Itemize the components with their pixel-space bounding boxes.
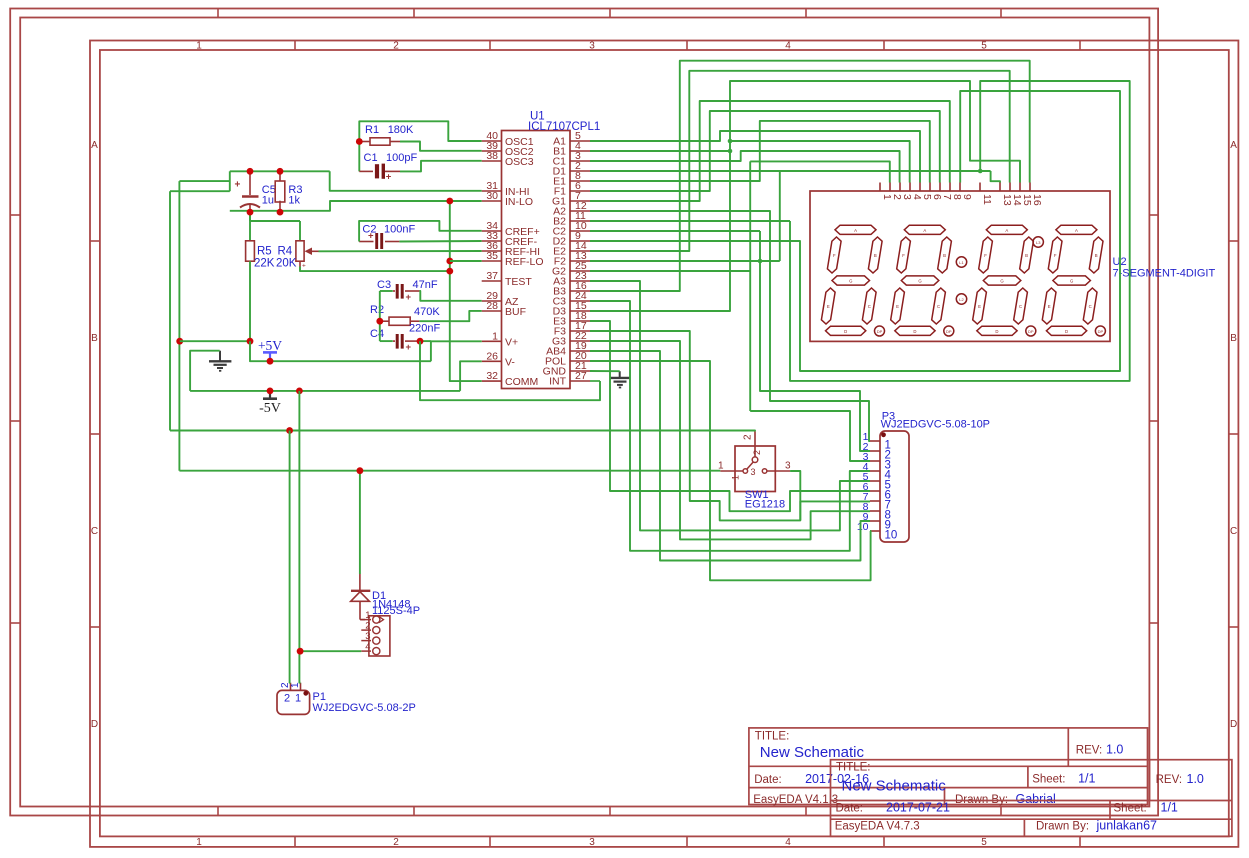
U1 pin 2 D1 bbox=[570, 170, 590, 172]
P2 pin 2 bbox=[361, 629, 371, 631]
svg-text:+: + bbox=[406, 292, 412, 303]
U1 pin 1 V+ bbox=[482, 340, 502, 342]
U1 pin 25 G2 bbox=[570, 270, 590, 272]
wire -5V drop to P2 pin4 and P1 pin1 bbox=[298, 391, 301, 651]
P2 pin 4 bbox=[361, 650, 371, 652]
junction D1-net x980 bbox=[978, 169, 983, 174]
U1 pin 18 E3 bbox=[570, 320, 590, 322]
P3 pin 9 bbox=[870, 520, 880, 522]
U1 pin 5 A1 bbox=[570, 140, 590, 142]
U2 digit 3 seven-segment bbox=[986, 225, 1027, 234]
svg-text:2: 2 bbox=[743, 434, 754, 440]
svg-text:1/1: 1/1 bbox=[1078, 772, 1095, 786]
wire G2 riser to U2 pin2 and P3 pin3 bbox=[590, 270, 750, 272]
svg-text:REV:: REV: bbox=[1156, 774, 1182, 786]
wire D1-net riser x780 to F2 row bbox=[779, 171, 781, 261]
SW1 pin 3 stub bbox=[762, 469, 767, 474]
wire D1-net jog into U2 pin13 bbox=[991, 171, 1000, 183]
U2 digit 1 seven-segment bbox=[835, 225, 876, 234]
svg-text:30: 30 bbox=[486, 190, 498, 202]
junction D3 riser pin4 branch bbox=[728, 139, 733, 144]
P3 pin 2 bbox=[870, 450, 880, 452]
svg-text:Gabrial: Gabrial bbox=[1016, 792, 1056, 806]
U1 pin 34 CREF+ bbox=[482, 230, 502, 232]
svg-text:A: A bbox=[1075, 228, 1078, 233]
wire OSC1 net bbox=[359, 121, 481, 141]
U1 pin 4 B1 bbox=[570, 150, 590, 152]
svg-text:470K: 470K bbox=[414, 306, 440, 318]
U1 pin 9 D2 bbox=[570, 240, 590, 242]
wire R1 right to OSC2 bbox=[400, 142, 482, 151]
U1 pin 7 G1 bbox=[570, 200, 590, 202]
svg-text:+: + bbox=[302, 263, 306, 270]
junction -5V tap bbox=[267, 388, 274, 395]
svg-text:TITLE:: TITLE: bbox=[755, 731, 790, 743]
diode D1 1N4148 bbox=[359, 471, 361, 574]
U2 digit 4 seven-segment bbox=[1056, 225, 1097, 234]
wire C5/R3 left leg to x180 drop bbox=[229, 171, 231, 191]
svg-text:27: 27 bbox=[575, 370, 587, 382]
svg-text:E: E bbox=[896, 304, 899, 309]
wire F1 to U2 pin7 bbox=[590, 111, 940, 191]
junction R3 bottom bbox=[277, 209, 284, 216]
potentiometer R4 20K bbox=[299, 221, 301, 241]
title block A bbox=[749, 728, 1148, 805]
U2 pin 14 bbox=[1009, 183, 1011, 192]
svg-text:DP: DP bbox=[1028, 329, 1034, 334]
svg-text:1/1: 1/1 bbox=[1161, 801, 1178, 815]
svg-text:37: 37 bbox=[486, 270, 498, 282]
P3 pin 7 bbox=[870, 500, 880, 502]
P3 pin 3 bbox=[870, 460, 880, 462]
svg-text:R1: R1 bbox=[365, 124, 379, 136]
wire E1 to U2 pin6 bbox=[590, 121, 930, 183]
svg-text:Sheet:: Sheet: bbox=[1114, 803, 1147, 815]
svg-text:26: 26 bbox=[486, 350, 498, 362]
svg-text:180K: 180K bbox=[388, 124, 414, 136]
svg-text:1: 1 bbox=[196, 41, 202, 52]
svg-text:V+: V+ bbox=[505, 336, 518, 348]
svg-text:1: 1 bbox=[731, 475, 741, 480]
wire A3 to P3 pin5 bbox=[590, 281, 870, 530]
P3 pin 1 bbox=[870, 440, 880, 442]
svg-text:REV:: REV: bbox=[1076, 745, 1102, 757]
switch SW1 EG1218 body bbox=[735, 446, 775, 492]
junction P1 pin2 drop bbox=[286, 427, 293, 434]
P2 pin 3 bbox=[361, 640, 371, 642]
svg-text:D: D bbox=[1230, 719, 1237, 730]
svg-text:2: 2 bbox=[284, 693, 290, 705]
svg-text:Drawn By:: Drawn By: bbox=[1036, 821, 1089, 833]
U1 pin 33 CREF- bbox=[482, 240, 502, 242]
wire IN-HI from C5/R3 right leg bbox=[330, 171, 482, 191]
U1 pin 10 C2 bbox=[570, 230, 590, 232]
U1 pin 35 REF-LO bbox=[482, 260, 502, 262]
svg-text:3: 3 bbox=[589, 837, 595, 848]
svg-text:1: 1 bbox=[196, 837, 202, 848]
svg-text:BUF: BUF bbox=[505, 306, 526, 318]
svg-text:2: 2 bbox=[393, 41, 399, 52]
junction x180/341 bbox=[176, 338, 183, 345]
svg-text:+: + bbox=[235, 180, 241, 191]
U2 pin 15 bbox=[1019, 183, 1021, 192]
svg-text:-5V: -5V bbox=[259, 401, 281, 416]
U2 colon upper LED bbox=[956, 257, 966, 267]
wire D1-net long horizontal bbox=[590, 170, 991, 172]
svg-text:4: 4 bbox=[365, 641, 370, 652]
ground symbol at U1 GND pin bbox=[619, 371, 621, 378]
svg-text:F: F bbox=[1054, 253, 1057, 258]
svg-text:F: F bbox=[902, 253, 905, 258]
svg-text:32: 32 bbox=[486, 370, 498, 382]
svg-text:1.0: 1.0 bbox=[1187, 772, 1204, 786]
R4 wiper arrow bbox=[305, 248, 313, 256]
wire INT pin stub link bbox=[590, 380, 600, 382]
U1 pin 38 OSC3 bbox=[482, 160, 502, 162]
svg-text:1u: 1u bbox=[262, 195, 274, 207]
svg-text:DP: DP bbox=[946, 329, 952, 334]
U2 colon lower LED bbox=[956, 294, 966, 304]
SW1 pivot and lever bbox=[752, 457, 758, 463]
P3 pin 5 bbox=[870, 480, 880, 482]
P3 pin 10 bbox=[870, 530, 880, 532]
junction F2/C2riser bbox=[758, 259, 763, 264]
U2 pin 8 bbox=[949, 183, 951, 192]
svg-text:E: E bbox=[827, 304, 830, 309]
wire F2 row bbox=[590, 260, 780, 262]
svg-text:D: D bbox=[91, 719, 98, 730]
junction D3 riser B1 join bbox=[728, 149, 733, 154]
U1 pin 31 IN-HI bbox=[482, 190, 502, 192]
svg-text:+5V: +5V bbox=[258, 338, 282, 353]
wire C5/R3 top rail bbox=[230, 170, 330, 172]
svg-text:E: E bbox=[978, 304, 981, 309]
wire F3 to P3 pin7 bbox=[590, 331, 870, 520]
U1 pin 30 IN-LO bbox=[482, 200, 502, 202]
svg-text:1.0: 1.0 bbox=[1106, 743, 1123, 757]
svg-text:+: + bbox=[406, 342, 412, 353]
SW1 pin 2 stub bbox=[754, 431, 756, 457]
U1 pin 27 INT bbox=[570, 380, 590, 382]
wire C3 right to AZ bbox=[419, 291, 481, 301]
svg-text:3: 3 bbox=[589, 41, 595, 52]
junction +5V tap bbox=[267, 358, 274, 365]
svg-text:L2: L2 bbox=[959, 297, 964, 302]
junction D1 drop bbox=[357, 467, 364, 474]
capacitor C1 100pF bbox=[358, 142, 360, 172]
wire SW1-pin2 long rail y431 bbox=[170, 430, 755, 433]
svg-text:10: 10 bbox=[885, 530, 898, 542]
op-amp U1 ICL7107CPL1 body bbox=[502, 131, 571, 389]
wire R4 bottom to COMM-net dot bbox=[300, 267, 450, 272]
wire INT net drop and hook bbox=[420, 341, 600, 400]
U2 pin 16 bbox=[1029, 183, 1031, 192]
junction IN-LO node bbox=[446, 198, 453, 205]
junction R1 left bbox=[356, 138, 363, 145]
wire C4 right net to V+ node bbox=[419, 340, 431, 342]
wire R4 wiper to REF-HI bbox=[319, 250, 482, 252]
wire POL to P3 pin10 bbox=[590, 361, 871, 580]
svg-text:3: 3 bbox=[751, 467, 756, 477]
wire R4 top to R5 top rail bbox=[250, 220, 300, 222]
wire D2 to U2 pin9 big loop bbox=[590, 91, 1120, 371]
svg-text:100pF: 100pF bbox=[386, 152, 417, 164]
svg-text:WJ2EDGVC-5.08-2P: WJ2EDGVC-5.08-2P bbox=[313, 702, 416, 714]
wire E2 to U2 pin14 bbox=[590, 71, 1010, 251]
resistor R5 22K bbox=[249, 212, 251, 241]
U1 pin 39 OSC2 bbox=[482, 150, 502, 152]
svg-text:B: B bbox=[1230, 333, 1237, 344]
U1 pin 12 A2 bbox=[570, 210, 590, 212]
svg-text:1: 1 bbox=[492, 330, 498, 342]
svg-text:L1: L1 bbox=[959, 260, 964, 265]
svg-text:D: D bbox=[844, 329, 847, 334]
junction P2 pin4 bbox=[297, 648, 304, 655]
wire D1-net riser x980 up bbox=[790, 81, 1130, 381]
wire A2 to P3 pin1 bbox=[590, 211, 870, 441]
U1 pin 14 E2 bbox=[570, 250, 590, 252]
wire drop to P1 pin 2 bbox=[289, 431, 292, 683]
svg-text:D: D bbox=[995, 329, 998, 334]
wire SW1-pin1 long rail y471 bbox=[179, 470, 720, 472]
svg-text:IN-LO: IN-LO bbox=[505, 196, 533, 208]
svg-text:4: 4 bbox=[785, 41, 791, 52]
wire C3 row to P3 pin4 bbox=[590, 301, 870, 551]
U1 pin 22 G3 bbox=[570, 340, 590, 342]
svg-text:C: C bbox=[1019, 304, 1022, 309]
svg-text:+: + bbox=[386, 172, 392, 183]
svg-text:16: 16 bbox=[1031, 194, 1043, 206]
capacitor C2 100nF bbox=[359, 241, 373, 243]
svg-text:22K: 22K bbox=[254, 258, 275, 270]
resistor R1 180K bbox=[359, 141, 370, 143]
junction C5 bottom bbox=[247, 209, 254, 216]
U1 pin 13 F2 bbox=[570, 260, 590, 262]
svg-text:Date:: Date: bbox=[754, 774, 782, 786]
wire P2 pin4 link bbox=[300, 650, 361, 652]
U1 pin 3 C1 bbox=[570, 160, 590, 162]
svg-text:C: C bbox=[1230, 526, 1237, 537]
junction R4 bottom node bbox=[446, 268, 453, 275]
svg-text:7-SEGMENT-4DIGIT: 7-SEGMENT-4DIGIT bbox=[1113, 268, 1216, 280]
P1 pin 2 stub bbox=[290, 683, 292, 691]
U1 pin 36 REF-HI bbox=[482, 250, 502, 252]
svg-text:TEST: TEST bbox=[505, 276, 532, 288]
U2 pin 2 bbox=[889, 183, 891, 192]
junction C5 top bbox=[247, 168, 254, 175]
U1 pin 20 POL bbox=[570, 360, 590, 362]
svg-text:D: D bbox=[913, 329, 916, 334]
svg-text:EG1218: EG1218 bbox=[745, 499, 785, 511]
wire V- jog bbox=[460, 361, 482, 391]
svg-text:Sheet:: Sheet: bbox=[1032, 774, 1065, 786]
svg-text:B: B bbox=[943, 253, 946, 258]
wire B1 join bbox=[590, 150, 730, 152]
junction INT branch bbox=[417, 338, 424, 345]
svg-text:A: A bbox=[1005, 228, 1008, 233]
U1 pin 32 COMM bbox=[482, 380, 502, 382]
resistor R3 1k bbox=[279, 171, 281, 181]
U2 pin 11 bbox=[979, 183, 981, 192]
U1 pin 21 GND bbox=[570, 370, 590, 372]
U1 pin 26 V- bbox=[482, 360, 502, 362]
U1 pin 17 F3 bbox=[570, 330, 590, 332]
U1 pin 8 E1 bbox=[570, 180, 590, 182]
title block B bbox=[831, 760, 1232, 837]
wire GND pin to ground bbox=[590, 370, 620, 372]
U2 degree LED bbox=[1033, 237, 1043, 247]
svg-text:C: C bbox=[868, 304, 871, 309]
svg-text:V-: V- bbox=[505, 356, 515, 368]
svg-text:1k: 1k bbox=[288, 195, 300, 207]
P2 pin 1 bbox=[361, 619, 371, 621]
svg-text:B: B bbox=[874, 253, 877, 258]
svg-text:DP: DP bbox=[877, 329, 883, 334]
U1 pin 15 D3 bbox=[570, 310, 590, 312]
svg-text:R5: R5 bbox=[257, 246, 272, 258]
svg-text:A: A bbox=[923, 228, 926, 233]
U2 pin 13 bbox=[999, 183, 1001, 192]
svg-text:REF-LO: REF-LO bbox=[505, 256, 544, 268]
svg-text:E: E bbox=[1048, 304, 1051, 309]
svg-text:38: 38 bbox=[486, 150, 498, 162]
U2 pin 9 bbox=[959, 183, 961, 192]
U1 pin 16 B3 bbox=[570, 290, 590, 292]
wire R5 bottom to +5V rail to V+ bbox=[250, 341, 431, 361]
U2 digit 2 seven-segment bbox=[904, 225, 945, 234]
svg-text:2: 2 bbox=[365, 620, 370, 631]
U1 pin 19 AB4 bbox=[570, 350, 590, 352]
svg-text:1: 1 bbox=[365, 610, 370, 621]
svg-text:3: 3 bbox=[785, 461, 791, 472]
P3 pin 6 bbox=[870, 490, 880, 492]
wire x170 long left rail from IN-LO row bbox=[170, 190, 230, 192]
U2 pin 5 bbox=[919, 183, 921, 192]
svg-text:4: 4 bbox=[785, 837, 791, 848]
svg-text:EasyEDA V4.1.3: EasyEDA V4.1.3 bbox=[753, 794, 838, 806]
svg-text:3: 3 bbox=[365, 631, 370, 642]
svg-text:100nF: 100nF bbox=[384, 224, 415, 236]
svg-text:F: F bbox=[984, 253, 987, 258]
svg-text:A: A bbox=[854, 228, 857, 233]
svg-text:9: 9 bbox=[961, 194, 973, 200]
U1 pin 40 OSC1 bbox=[482, 140, 502, 142]
wire B3 to U2 pin16 bbox=[590, 61, 1030, 291]
P1 pin 1 stub bbox=[300, 683, 302, 691]
U1 pin 24 C3 bbox=[570, 300, 590, 302]
P3 pin 4 bbox=[870, 470, 880, 472]
P3 pin 8 bbox=[870, 510, 880, 512]
wire C1 right to OSC3 bbox=[400, 161, 482, 172]
svg-text:A: A bbox=[1230, 140, 1237, 151]
junction R3 top bbox=[277, 168, 284, 175]
junction R5 bottom bbox=[247, 338, 254, 345]
svg-text:WJ2EDGVC-5.08-10P: WJ2EDGVC-5.08-10P bbox=[881, 419, 990, 431]
U2 pin 4 bbox=[909, 183, 911, 192]
svg-text:28: 28 bbox=[486, 300, 498, 312]
junction R2 left bbox=[376, 318, 383, 325]
svg-text:35: 35 bbox=[486, 250, 498, 262]
display U2 7-SEGMENT-4DIGIT body bbox=[810, 191, 1110, 341]
+5V power symbol bbox=[263, 351, 277, 354]
wire E3 to P3 pin6 bbox=[590, 321, 870, 511]
svg-text:COMM: COMM bbox=[505, 376, 538, 388]
svg-text:C: C bbox=[1089, 304, 1092, 309]
-5V power symbol bbox=[269, 391, 271, 399]
svg-text:2: 2 bbox=[752, 450, 762, 455]
svg-text:B: B bbox=[1095, 253, 1098, 258]
U1 pin 29 AZ bbox=[482, 300, 502, 302]
svg-text:11: 11 bbox=[981, 194, 993, 205]
svg-text:2: 2 bbox=[393, 837, 399, 848]
svg-text:C4: C4 bbox=[370, 328, 384, 340]
U2 pin 1 bbox=[879, 183, 881, 192]
wire C2 row bbox=[590, 230, 760, 232]
wire -5V rail to V- bbox=[190, 390, 460, 392]
svg-text:C: C bbox=[91, 526, 98, 537]
capacitor C3 47nF bbox=[380, 290, 393, 292]
svg-text:D: D bbox=[1065, 329, 1068, 334]
svg-text:47nF: 47nF bbox=[413, 279, 438, 291]
svg-text:New Schematic: New Schematic bbox=[842, 778, 947, 795]
wire G1 to U2 pin8 bbox=[590, 101, 950, 201]
wire SW1 pin3 drop to F3 net bbox=[790, 471, 800, 520]
U1 pin 23 A3 bbox=[570, 280, 590, 282]
svg-text:C3: C3 bbox=[377, 279, 391, 291]
wire C2 riser to P3 pin2 bbox=[760, 231, 870, 451]
svg-text:5: 5 bbox=[981, 837, 987, 848]
svg-text:5: 5 bbox=[981, 41, 987, 52]
U1 pin 37 TEST bbox=[482, 280, 502, 282]
wire A1 to U2 pin5 bbox=[590, 131, 920, 183]
wire D3 to U2 pin15 bbox=[590, 81, 1020, 311]
svg-text:B: B bbox=[91, 333, 98, 344]
U2 pin 3 bbox=[899, 183, 901, 192]
capacitor C4 220nF bbox=[380, 340, 393, 342]
U2 pin 6 bbox=[929, 183, 931, 192]
svg-text:A: A bbox=[91, 140, 98, 151]
svg-text:2017-07-21: 2017-07-21 bbox=[886, 801, 950, 815]
U1 pin 6 F1 bbox=[570, 190, 590, 192]
wire COMM riser from IN-LO dot bbox=[450, 201, 482, 381]
svg-text:L3: L3 bbox=[1036, 240, 1041, 245]
svg-text:ICL7107CPL1: ICL7107CPL1 bbox=[528, 121, 600, 133]
svg-text:R2: R2 bbox=[370, 304, 384, 316]
svg-text:1: 1 bbox=[295, 693, 301, 705]
resistor R2 470K bbox=[380, 320, 389, 322]
wire x180 long drop bbox=[178, 181, 180, 471]
wire V+ jog bbox=[431, 341, 482, 361]
svg-text:EasyEDA V4.7.3: EasyEDA V4.7.3 bbox=[835, 821, 920, 833]
wire D3-net branch to U2 pin4 bbox=[730, 141, 910, 183]
U1 pin 11 B2 bbox=[570, 220, 590, 222]
wire C1 to U2 pin3 bbox=[590, 151, 900, 183]
svg-text:INT: INT bbox=[549, 376, 567, 388]
wire REF-LO link bbox=[450, 260, 482, 262]
wire ground-left branch bbox=[190, 351, 220, 391]
svg-text:OSC3: OSC3 bbox=[505, 156, 534, 168]
U2 pin 7 bbox=[939, 183, 941, 192]
U1 pin 28 BUF bbox=[482, 310, 502, 312]
wire IN-LO to C5/R3 bottom rail bbox=[230, 201, 482, 211]
SW1 pin 1 stub bbox=[720, 470, 743, 472]
wire B2 row bbox=[590, 220, 790, 222]
wire C3-R2-C4 left vertical bbox=[379, 291, 381, 341]
svg-text:C2: C2 bbox=[362, 224, 376, 236]
wire G3 to P3 pin8 bbox=[590, 341, 870, 539]
svg-text:DP: DP bbox=[1098, 329, 1104, 334]
junction -5V to P1 drop bbox=[296, 388, 303, 395]
